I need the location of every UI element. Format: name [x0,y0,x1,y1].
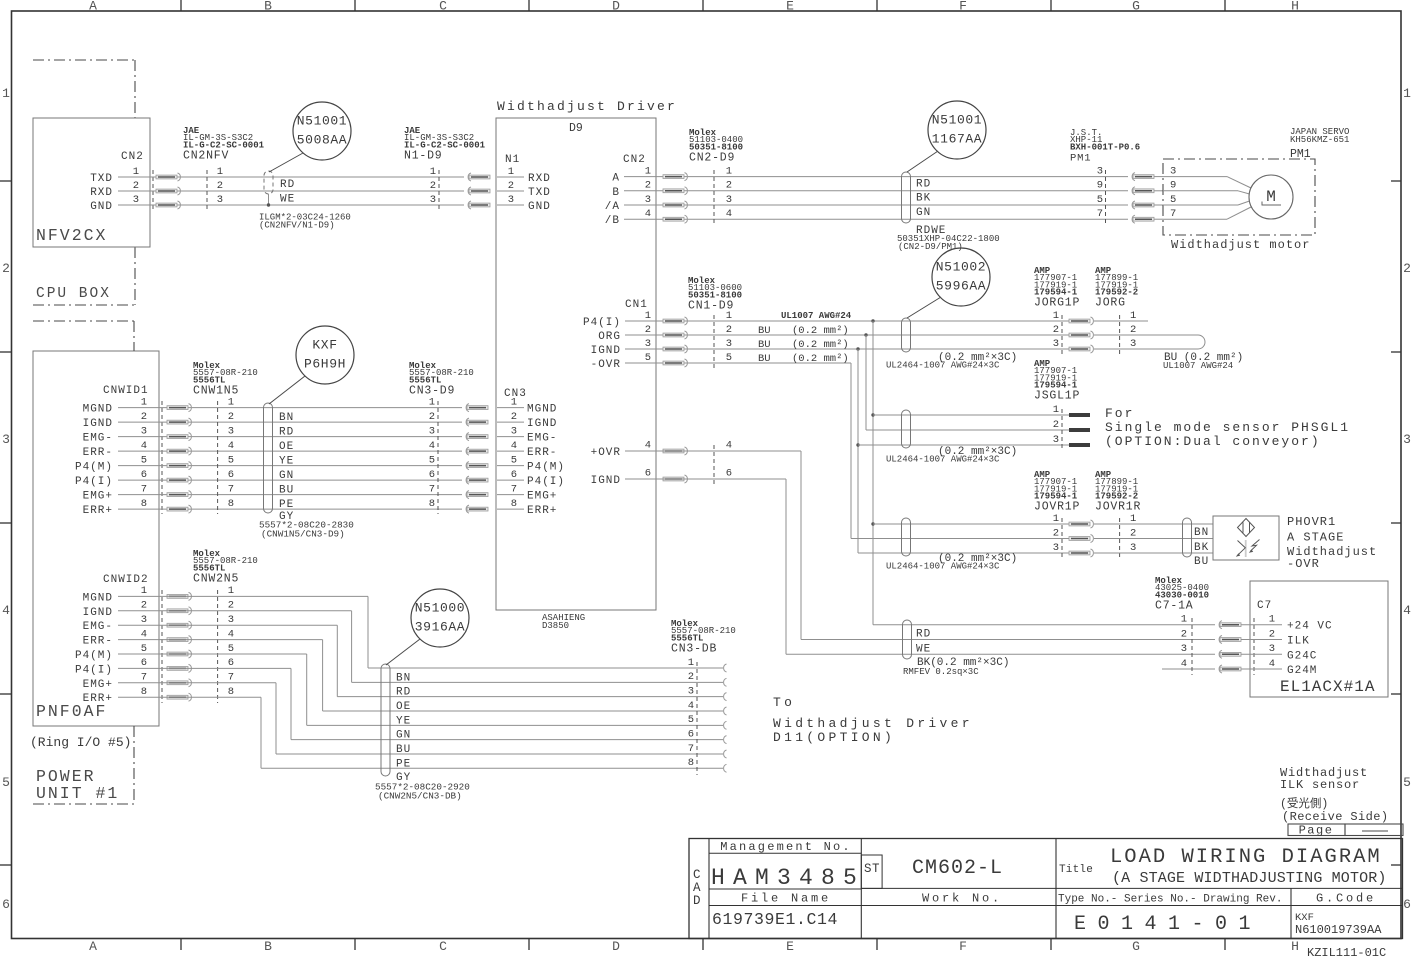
svg-text:P4(M): P4(M) [75,650,113,662]
svg-text:2: 2 [1053,419,1059,431]
svg-text:3: 3 [217,194,223,206]
balloon N51001 1167AA [928,101,986,159]
svg-text:KXF: KXF [312,338,337,353]
svg-text:3: 3 [1053,542,1059,554]
svg-text:3: 3 [688,685,694,697]
svg-text:PE: PE [279,499,294,511]
svg-text:4: 4 [726,440,732,452]
sensor photoelectric symbol diamond [1238,519,1255,537]
svg-text:OE: OE [279,441,294,453]
svg-text:5: 5 [141,643,147,655]
svg-text:BU: BU [758,353,771,365]
svg-text:RD: RD [916,629,931,641]
svg-text:1: 1 [217,166,223,178]
svg-text:3: 3 [1053,338,1059,350]
svg-text:Widthadjust Driver: Widthadjust Driver [773,716,973,731]
svg-text:PM1: PM1 [1290,148,1311,161]
svg-text:JSGL1P: JSGL1P [1034,390,1080,403]
motor wires fan-in [1163,176,1227,178]
svg-text:(CNW1N5/CN3-D9): (CNW1N5/CN3-D9) [261,529,345,540]
svg-text:PE: PE [396,758,411,770]
svg-text:ERR-: ERR- [83,447,113,459]
svg-text:7: 7 [228,483,234,495]
-OVR wire down to JOVR1P pin2 [848,362,851,364]
svg-text:3: 3 [429,425,435,437]
svg-text:7: 7 [511,483,517,495]
svg-text:6: 6 [141,657,147,669]
svg-text:A: A [612,173,620,185]
svg-text:To: To [773,695,795,710]
svg-text:MGND: MGND [83,592,113,604]
svg-text:(CN2-D9/PM1): (CN2-D9/PM1) [898,242,963,252]
CN3-DB dashed boundary [696,662,698,775]
svg-text:2: 2 [726,324,732,336]
svg-text:E0141-01: E0141-01 [1074,913,1262,936]
CN3-D9 dashed boundary [437,401,439,514]
svg-text:6: 6 [726,468,732,480]
svg-text:3: 3 [645,194,651,206]
CPU BOX dash-dot outline [33,59,135,61]
column ruler ticks [180,0,182,11]
svg-text:C: C [439,0,447,14]
svg-text:4: 4 [228,440,234,452]
sensor receive beam arrow [1238,541,1246,555]
CN2 contacts male [663,175,684,179]
svg-text:619739E1.C14: 619739E1.C14 [712,910,838,929]
JORG pin1 tail [1094,320,1148,322]
svg-text:CM602-L: CM602-L [912,857,1003,880]
svg-text:C: C [693,868,701,882]
svg-text:CNW1N5: CNW1N5 [193,384,239,397]
svg-text:P4(M): P4(M) [75,462,113,474]
CNWID1 dashed boundary [161,401,163,514]
svg-text:CN1-D9: CN1-D9 [688,299,734,312]
motor wires CN2-D9 to PM1 [656,176,1128,178]
svg-text:4: 4 [141,440,147,452]
svg-text:2: 2 [508,180,514,192]
svg-text:OE: OE [396,701,411,713]
svg-text:N51001: N51001 [932,113,982,128]
svg-text:5: 5 [645,352,651,364]
svg-text:2: 2 [228,411,234,423]
svg-text:9: 9 [1097,180,1103,192]
svg-text:2: 2 [1053,527,1059,539]
svg-text:5: 5 [228,643,234,655]
svg-text:IGND: IGND [591,475,621,487]
svg-text:1: 1 [1403,86,1411,101]
EL1ACX#1A box [1250,581,1388,697]
CN2 contacts (male) [156,175,177,179]
+OVR wire turning down to C7 [656,450,801,452]
svg-text:1: 1 [141,396,147,408]
svg-text:4: 4 [511,440,517,452]
svg-text:EL1ACX#1A: EL1ACX#1A [1280,678,1375,696]
CNWID1 contacts male [167,406,188,410]
svg-text:2: 2 [133,180,139,192]
svg-text:3: 3 [1403,432,1411,447]
svg-text:2: 2 [429,411,435,423]
title block vertical separators [860,839,862,939]
svg-text:6: 6 [2,897,10,912]
CN3 contacts female [466,404,469,412]
svg-text:5: 5 [1097,194,1103,206]
svg-text:B: B [264,939,272,954]
svg-text:+OVR: +OVR [591,447,621,459]
svg-text:N51000: N51000 [415,601,465,616]
svg-text:IGND: IGND [591,345,621,357]
svg-text:2: 2 [217,180,223,192]
svg-text:(0.2 mm²): (0.2 mm²) [792,353,849,365]
C7-1A dashed boundary [1191,618,1193,675]
svg-text:Widthadjust Driver: Widthadjust Driver [497,99,677,114]
balloon leader [269,153,303,172]
svg-text:4: 4 [645,440,651,452]
svg-text:YE: YE [396,715,411,727]
svg-text:F: F [959,939,967,954]
cable marker CN2-D9/PM1 [902,172,911,223]
ORG branch down to JSGL1P pin2 [864,333,867,336]
cable marker JSGL 3C [902,410,911,448]
svg-text:6: 6 [1403,897,1411,912]
branch to JSGL1P pin3 [856,443,859,446]
svg-text:(0.2 mm²): (0.2 mm²) [792,325,849,337]
svg-text:1: 1 [1181,614,1187,626]
svg-text:YE: YE [279,456,294,468]
svg-text:3: 3 [511,425,517,437]
Widthadjust motor dash-dot box [1163,159,1315,235]
svg-text:3: 3 [726,338,732,350]
svg-text:(CNW2N5/CN3-DB): (CNW2N5/CN3-DB) [378,791,462,802]
svg-text:/A: /A [605,201,620,213]
svg-text:BXH-001T-P0.6: BXH-001T-P0.6 [1070,142,1140,152]
svg-text:EMG-: EMG- [83,433,113,445]
branch to JSGL1P pin1 [871,413,874,416]
svg-text:2: 2 [141,600,147,612]
cable marker C7 3C [903,620,912,659]
svg-text:ILK sensor: ILK sensor [1280,778,1360,792]
branch to JOVR1P pin3 [858,552,1069,554]
svg-text:A STAGE: A STAGE [1287,531,1344,545]
svg-text:G.Code: G.Code [1316,892,1376,906]
PM1 contacts female [1132,173,1135,181]
svg-text:3: 3 [645,338,651,350]
svg-text:3: 3 [1269,643,1275,655]
CN2 connector dashed boundary [152,170,154,211]
svg-text:B: B [264,0,272,14]
svg-text:2: 2 [1130,527,1136,539]
row ruler ticks [0,180,12,182]
svg-text:4: 4 [1269,658,1275,670]
svg-text:KH56KMZ-651: KH56KMZ-651 [1290,135,1349,145]
svg-text:6: 6 [228,469,234,481]
P4(I) power rail down [871,319,874,322]
svg-text:EMG-: EMG- [83,621,113,633]
svg-text:RXD: RXD [90,187,113,199]
JOVR1P dashed boundary [1061,518,1063,559]
svg-text:GND: GND [90,201,113,213]
svg-text:1: 1 [1053,404,1059,416]
svg-text:P4(I): P4(I) [75,476,113,488]
svg-text:3: 3 [726,194,732,206]
svg-text:Title: Title [1059,864,1093,876]
svg-text:CN2-D9: CN2-D9 [689,151,735,164]
svg-text:8: 8 [429,498,435,510]
svg-text:ERR+: ERR+ [83,693,113,705]
svg-text:4: 4 [141,628,147,640]
svg-text:MGND: MGND [527,404,557,416]
svg-text:(Receive Side): (Receive Side) [1282,810,1388,824]
svg-text:3: 3 [1097,165,1103,177]
svg-text:6: 6 [429,469,435,481]
svg-text:G24M: G24M [1287,665,1317,677]
svg-text:7: 7 [688,743,694,755]
C7 dashed boundary [1253,618,1255,675]
svg-text:NFV2CX: NFV2CX [36,226,107,245]
svg-text:7: 7 [228,672,234,684]
svg-text:EMG+: EMG+ [527,491,557,503]
PHOVR1 sensor box [1213,516,1279,560]
svg-text:BK: BK [1194,542,1209,554]
svg-text:6: 6 [141,469,147,481]
type no row [1056,905,1403,907]
svg-text:8: 8 [228,686,234,698]
svg-text:Single mode sensor PHSGL1: Single mode sensor PHSGL1 [1105,420,1350,435]
svg-text:CNWID1: CNWID1 [103,385,149,397]
svg-text:(CN2NFV/N1-D9): (CN2NFV/N1-D9) [259,221,335,231]
svg-text:5: 5 [429,454,435,466]
svg-text:3: 3 [508,194,514,206]
svg-text:8: 8 [141,686,147,698]
svg-text:Page: Page [1299,824,1334,838]
svg-text:-OVR: -OVR [1287,557,1320,571]
svg-text:5: 5 [688,714,694,726]
motor M circle [1249,175,1293,219]
svg-text:3: 3 [1130,542,1136,554]
svg-text:3: 3 [228,614,234,626]
svg-text:4: 4 [1181,658,1187,670]
svg-text:7: 7 [141,672,147,684]
svg-text:(OPTION:Dual conveyor): (OPTION:Dual conveyor) [1105,434,1321,449]
svg-text:TXD: TXD [528,187,551,199]
svg-text:ILK: ILK [1287,636,1310,648]
svg-text:1167AA: 1167AA [932,132,982,147]
svg-text:1: 1 [228,585,234,597]
svg-text:CN2: CN2 [121,151,144,163]
svg-text:M: M [1266,188,1276,206]
title block outer frame [689,839,1403,939]
svg-text:RD: RD [280,179,295,191]
svg-text:JOVR1P: JOVR1P [1034,501,1080,514]
svg-text:1: 1 [1269,614,1275,626]
svg-text:Management No.: Management No. [720,840,852,854]
cable marker JOVR 3C [902,518,911,556]
svg-text:3: 3 [1130,338,1136,350]
svg-text:EMG+: EMG+ [83,679,113,691]
svg-text:2: 2 [2,261,10,276]
svg-text:RD: RD [396,687,411,699]
svg-text:1: 1 [430,166,436,178]
svg-text:UNIT #1: UNIT #1 [36,784,119,803]
JORG dashed boundary [1119,315,1121,355]
svg-text:IGND: IGND [83,607,113,619]
svg-text:RXD: RXD [528,173,551,185]
sensor face line [1245,540,1247,557]
svg-text:2: 2 [1053,324,1059,336]
svg-text:1: 1 [511,396,517,408]
svg-text:IGND: IGND [83,418,113,430]
svg-text:ERR+: ERR+ [527,505,557,517]
svg-text:1: 1 [228,396,234,408]
sensor lightning bolt [1251,540,1260,552]
svg-text:N51002: N51002 [936,260,986,275]
svg-text:(A STAGE WIDTHADJUSTING MOTOR): (A STAGE WIDTHADJUSTING MOTOR) [1112,870,1387,887]
rail corner to C7 pin1 [873,624,1215,626]
svg-text:RD: RD [916,179,931,191]
svg-text:8: 8 [141,498,147,510]
svg-text:BN: BN [1194,527,1209,539]
svg-text:A: A [89,939,97,954]
CNWID2 dashed boundary [161,590,163,703]
svg-text:1: 1 [726,165,732,177]
C7 wires [801,639,1215,641]
C7 contacts female [1219,621,1222,629]
cable marker CN1 3C [902,318,911,352]
svg-text:1: 1 [2,86,10,101]
svg-text:JORG1P: JORG1P [1034,297,1080,310]
cable marker PHOVR1 [1183,518,1192,557]
svg-text:2: 2 [1130,324,1136,336]
svg-text:3: 3 [2,432,10,447]
balloon KXF P6H9H [296,326,354,384]
svg-text:Type No.- Series No.- Drawing: Type No.- Series No.- Drawing Rev. [1058,894,1282,906]
svg-text:B: B [612,187,620,199]
JORG1P dashed boundary [1061,315,1063,355]
svg-text:1: 1 [133,166,139,178]
svg-text:6: 6 [228,657,234,669]
svg-text:BU: BU [1194,556,1209,568]
svg-text:(受光側): (受光側) [1280,796,1328,811]
JOVR1R tails to sensor [1094,523,1213,525]
svg-text:1: 1 [645,310,651,322]
svg-text:For: For [1105,406,1134,421]
svg-text:BU: BU [396,744,411,756]
svg-text:WE: WE [280,194,295,206]
svg-text:1: 1 [1053,310,1059,322]
svg-text:D11(OPTION): D11(OPTION) [773,730,895,745]
svg-text:1: 1 [429,396,435,408]
svg-text:BK: BK [916,193,931,205]
svg-text:G: G [1132,0,1140,14]
svg-text:2: 2 [645,324,651,336]
balloon N51002 5996AA [932,248,990,306]
svg-text:H: H [1291,939,1299,954]
svg-text:5: 5 [726,352,732,364]
JORG1P contacts male [1069,319,1090,323]
svg-text:CN2: CN2 [623,154,646,166]
svg-text:-OVR: -OVR [591,359,621,371]
svg-text:GN: GN [396,730,411,742]
svg-text:File Name: File Name [741,892,831,906]
CNWID2 contacts male [167,595,188,599]
svg-text:5: 5 [511,454,517,466]
svg-text:EMG-: EMG- [527,433,557,445]
svg-text:Widthadjust motor: Widthadjust motor [1171,238,1310,252]
svg-text:ERR-: ERR- [83,636,113,648]
svg-text:2: 2 [228,600,234,612]
svg-text:8: 8 [228,498,234,510]
svg-text:2: 2 [1181,628,1187,640]
branch to JOVR1P pin1 [871,522,874,525]
svg-text:4: 4 [726,208,732,220]
svg-text:IGND: IGND [527,418,557,430]
svg-text:MGND: MGND [83,404,113,416]
svg-text:JORG: JORG [1095,297,1126,310]
svg-text:N1-D9: N1-D9 [404,149,443,162]
N1 contacts (female) [468,173,471,181]
CN1 wires [656,320,1069,322]
svg-text:5008AA: 5008AA [297,133,347,148]
svg-text:6: 6 [511,469,517,481]
svg-text:RMFEV 0.2sq×3C: RMFEV 0.2sq×3C [903,667,979,677]
svg-text:2: 2 [1269,628,1275,640]
POWER UNIT #1 dash-dot outline [33,320,134,322]
svg-text:N51001: N51001 [297,114,347,129]
JOVR1R dashed boundary [1119,518,1121,559]
svg-text:ORG: ORG [598,331,621,343]
C7 wire stubs inside [1241,624,1282,626]
svg-text:P4(I): P4(I) [75,664,113,676]
svg-text:A: A [89,0,97,14]
ST box [861,855,882,888]
svg-text:1: 1 [508,166,514,178]
svg-text:7: 7 [429,483,435,495]
svg-text:3: 3 [1053,434,1059,446]
harness wires CNWID1 to CN3 [159,407,462,409]
svg-text:(0.2 mm²): (0.2 mm²) [792,339,849,351]
svg-text:RD: RD [279,427,294,439]
svg-text:C7: C7 [1257,600,1272,612]
title block CAD column [708,839,710,939]
svg-text:D: D [612,939,620,954]
svg-text:7: 7 [141,483,147,495]
balloon N51000 3916AA [411,589,469,647]
svg-text:GN: GN [916,207,931,219]
svg-text:4: 4 [429,440,435,452]
cable marker CNW1N5/CN3-D9 [264,403,273,513]
svg-text:8: 8 [511,498,517,510]
svg-text:6: 6 [688,728,694,740]
svg-text:2: 2 [688,671,694,683]
JORG pins2-3 BU jumper loop [1094,335,1205,349]
svg-text:BN: BN [279,412,294,424]
svg-text:N610019739AA: N610019739AA [1295,923,1382,937]
svg-text:G24C: G24C [1287,650,1317,662]
svg-text:1: 1 [141,585,147,597]
svg-text:N1: N1 [505,154,520,166]
svg-text:PM1: PM1 [1070,152,1091,164]
svg-text:4: 4 [1403,603,1411,618]
svg-text:A: A [693,881,701,895]
balloon N51001 5008AA [293,102,351,160]
svg-text:WE: WE [916,643,931,655]
svg-text:2: 2 [726,180,732,192]
svg-text:3916AA: 3916AA [415,620,465,635]
svg-text:BU: BU [279,485,294,497]
svg-text:Work No.: Work No. [922,892,1002,906]
svg-text:CN3-DB: CN3-DB [671,642,717,655]
svg-text:5: 5 [228,454,234,466]
svg-text:3: 3 [430,194,436,206]
